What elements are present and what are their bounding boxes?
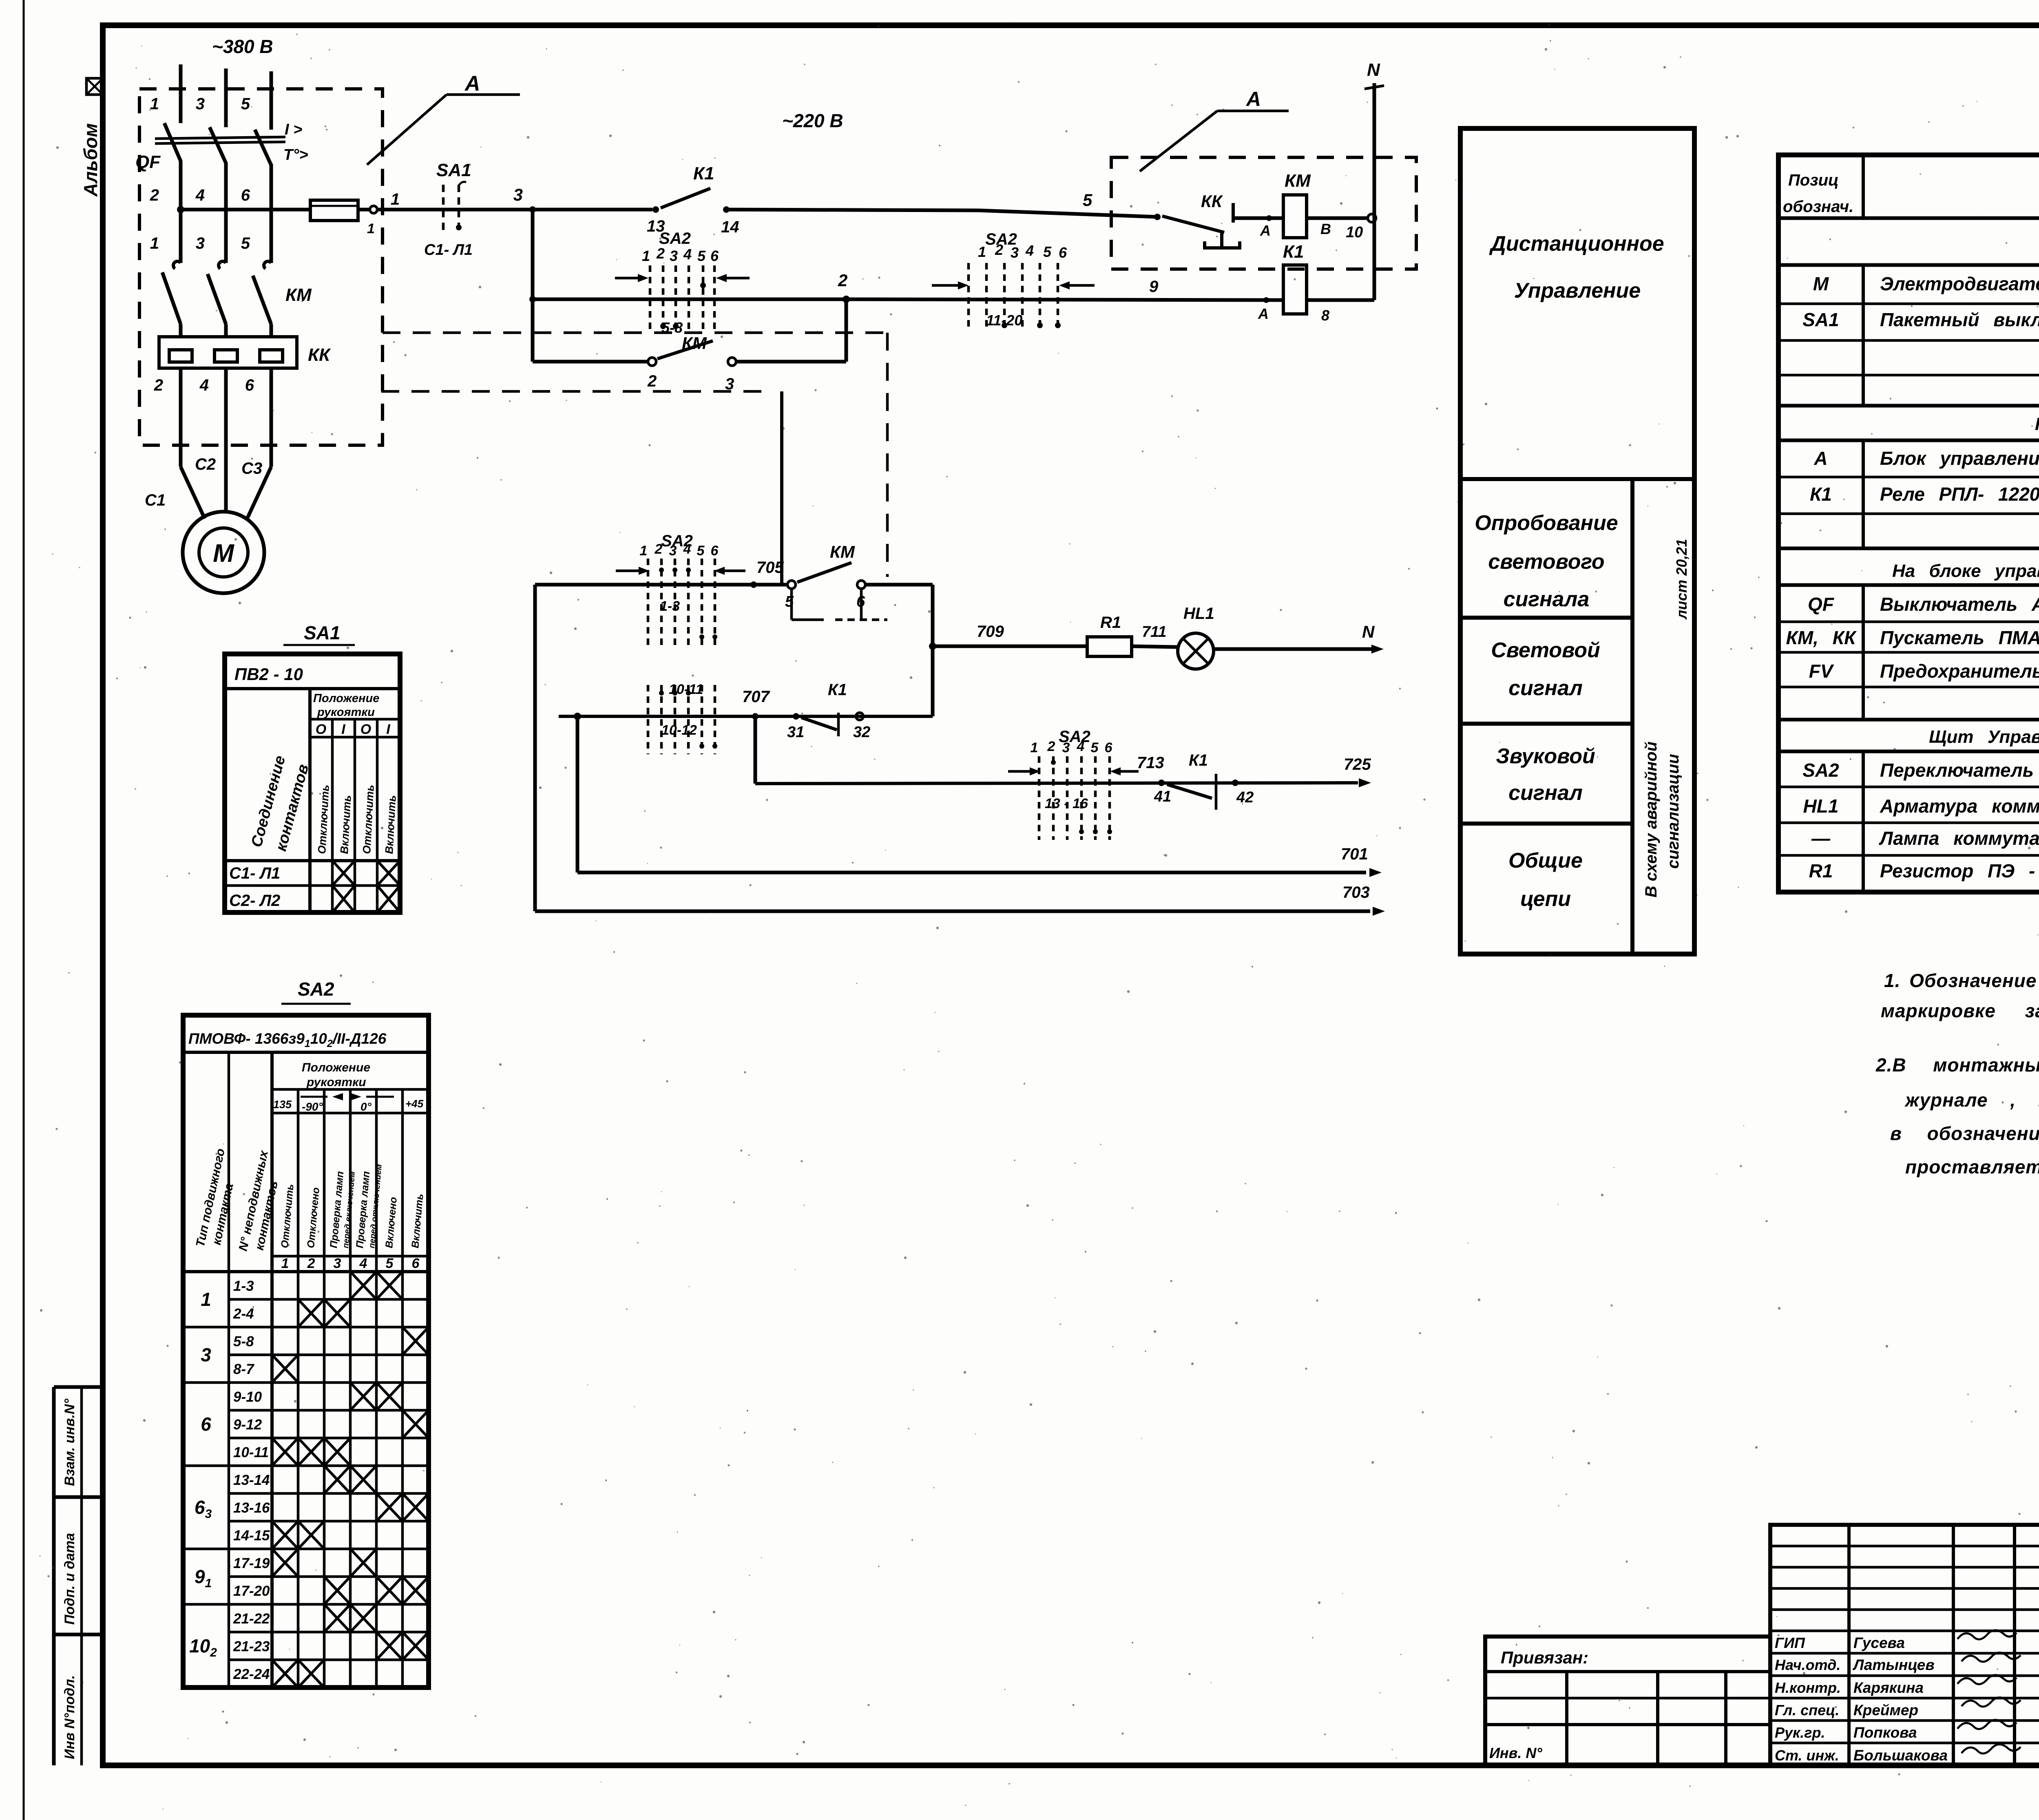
svg-text:КК: КК [308,345,331,365]
svg-text:QF: QF [135,152,161,172]
svg-text:6: 6 [245,376,254,394]
svg-text:6: 6 [710,247,719,264]
svg-text:—: — [1811,828,1831,849]
svg-text:КМ: КМ [682,334,707,353]
svg-text:+45: +45 [405,1098,424,1110]
svg-text:Ст. инж.: Ст. инж. [1775,1747,1839,1764]
svg-text:Попкова: Попкова [1853,1724,1917,1741]
svg-text:Лампа коммутаторная КМ60-: Лампа коммутаторная КМ60-55 [1879,828,2039,849]
svg-text:4: 4 [683,541,691,557]
svg-text:1. Обозначение „0” соответст: 1. Обозначение „0” соответствует заводск… [1884,970,2039,991]
svg-text:Выключатель АЕ2046-10У3: Выключатель АЕ2046-10У3 [1880,594,2039,615]
svg-text:4: 4 [195,186,205,204]
svg-text:Предохранитель ППТ-10У: Предохранитель ППТ-10У3 [1880,660,2039,682]
svg-text:А: А [464,72,480,95]
svg-text:Переключатель ПМОВФ-1366з: Переключатель ПМОВФ-1366з9,10г/II-Д126 [1880,760,2039,781]
svg-text:R1: R1 [1100,614,1121,632]
svg-text:0°: 0° [360,1100,372,1113]
svg-text:Пускатель ПМА4200 - УХЛ: Пускатель ПМА4200 - УХЛ4Б [1880,627,2039,648]
svg-text:5-8: 5-8 [233,1334,254,1350]
svg-text:I >: I > [285,121,302,138]
svg-text:6: 6 [856,593,865,610]
svg-text:С1- Л1: С1- Л1 [229,864,280,882]
svg-text:2.В монтажных схемах щи: 2.В монтажных схемах щитов в кабельном [1875,1054,2039,1076]
svg-text:Привязан:: Привязан: [1501,1648,1588,1667]
svg-text:HL1: HL1 [1183,605,1214,623]
svg-text:8-7: 8-7 [233,1361,254,1377]
svg-text:9: 9 [1149,278,1159,296]
svg-text:Взам. инв.N°: Взам. инв.N° [62,1398,77,1486]
svg-text:13: 13 [647,217,665,235]
svg-text:Положение: Положение [313,692,379,705]
svg-text:3: 3 [334,1256,341,1271]
svg-text:Реле РПЛ- 12204: Реле РПЛ- 12204 [1880,484,2039,505]
svg-text:2: 2 [656,245,665,262]
svg-text:2-4: 2-4 [233,1306,254,1322]
svg-text:5: 5 [386,1256,394,1271]
svg-text:Гл. спец.: Гл. спец. [1775,1702,1839,1718]
svg-text:Дистанционное: Дистанционное [1489,232,1664,256]
svg-text:3: 3 [670,247,678,264]
svg-text:22-24: 22-24 [233,1666,270,1682]
svg-text:светового: светового [1488,550,1604,574]
svg-text:709: 709 [977,623,1004,641]
svg-text:Инв N°подл.: Инв N°подл. [62,1675,77,1759]
svg-text:5: 5 [241,234,250,252]
svg-text:707: 707 [742,688,770,706]
svg-text:ПМОВФ- 1366з91102/II-Д126: ПМОВФ- 1366з91102/II-Д126 [188,1030,387,1049]
svg-text:1: 1 [642,247,650,264]
svg-text:R1: R1 [1809,860,1833,881]
svg-text:13-14: 13-14 [233,1472,270,1488]
svg-text:Блок управления БОУ5130- 3: Блок управления БОУ5130- 3674УХЛ4Б [1880,448,2039,469]
svg-text:703: 703 [1342,883,1370,901]
svg-text:17-20: 17-20 [233,1583,270,1599]
svg-text:21-22: 21-22 [233,1611,270,1627]
svg-text:маркировке зажимов.: маркировке зажимов. [1881,1000,2039,1021]
svg-text:Пакетный выключатель ПВ2- 1: Пакетный выключатель ПВ2- 10/У356 [1880,309,2039,330]
svg-text:SA1: SA1 [1802,309,1839,330]
svg-text:SA1: SA1 [304,622,340,643]
svg-text:10-11: 10-11 [669,682,703,697]
svg-text:Инв. N°: Инв. N° [1489,1745,1542,1761]
svg-text:сигнал: сигнал [1508,781,1583,805]
svg-text:705: 705 [756,559,784,576]
svg-text:К1: К1 [1283,242,1304,262]
svg-text:FV: FV [1809,660,1834,682]
svg-text:О: О [360,722,371,737]
svg-text:С1: С1 [145,491,166,509]
svg-text:HL1: HL1 [1803,795,1839,817]
svg-text:Подп. и дата: Подп. и дата [62,1533,77,1625]
svg-text:С2: С2 [195,455,216,473]
svg-text:НКУ - щит 5Щ: НКУ - щит 5Щ [2035,414,2039,434]
svg-text:N: N [1367,60,1380,80]
svg-text:SA1: SA1 [436,160,471,180]
svg-text:4: 4 [1025,242,1034,259]
svg-text:Большакова: Большакова [1853,1747,1948,1764]
svg-text:М: М [1813,273,1829,294]
svg-text:Резистор ПЭ - 25: Резистор ПЭ - 25 [1880,860,2039,881]
svg-text:-90°: -90° [302,1100,323,1113]
svg-text:3: 3 [513,185,523,204]
svg-text:9-12: 9-12 [233,1417,262,1433]
svg-text:Щит Управления: Щит Управления [1929,727,2039,747]
svg-text:2: 2 [307,1256,315,1271]
svg-text:1-3: 1-3 [660,599,680,614]
svg-text:32: 32 [853,724,870,741]
svg-text:I: I [341,722,346,737]
svg-text:1: 1 [978,243,986,260]
svg-text:5: 5 [785,593,794,610]
svg-text:КМ: КМ [830,542,855,561]
svg-text:2: 2 [655,541,663,557]
svg-text:О: О [316,722,326,737]
svg-text:К1: К1 [1189,751,1208,769]
svg-text:сигнал: сигнал [1508,676,1583,700]
svg-text:21-23: 21-23 [233,1639,270,1654]
svg-text:КМ: КМ [285,285,312,305]
svg-text:3: 3 [201,1344,211,1365]
svg-text:цепи: цепи [1520,887,1571,911]
svg-text:SA2: SA2 [298,978,334,1000]
svg-text:14: 14 [721,218,739,236]
svg-text:Карякина: Карякина [1853,1679,1924,1696]
svg-text:SA2: SA2 [985,230,1017,248]
svg-text:4: 4 [683,246,692,263]
svg-text:рукоятки: рукоятки [317,706,375,719]
svg-text:41: 41 [1154,788,1171,805]
svg-text:5: 5 [1091,740,1099,755]
svg-text:14-15: 14-15 [233,1528,270,1544]
svg-text:КМ, КК: КМ, КК [1786,627,1857,648]
svg-text:1: 1 [201,1289,211,1310]
svg-text:1-3: 1-3 [233,1278,254,1294]
svg-text:Арматура коммутаторной лампы: Арматура коммутаторной лампы АСКМ-3 [1880,795,2039,817]
svg-text:Положение: Положение [302,1061,370,1074]
svg-text:6: 6 [201,1414,211,1435]
svg-text:135: 135 [273,1098,292,1111]
svg-text:В схему аварийной: В схему аварийной [1642,742,1660,898]
svg-text:42: 42 [1236,789,1254,806]
svg-text:2: 2 [647,372,657,390]
svg-text:~380 В: ~380 В [212,36,273,57]
svg-text:3: 3 [196,95,205,113]
svg-text:QF: QF [1808,594,1835,615]
svg-text:Световой: Световой [1491,638,1600,662]
svg-text:КК: КК [1201,192,1223,211]
svg-text:Рук.гр.: Рук.гр. [1775,1724,1825,1741]
svg-text:N: N [1362,622,1375,641]
svg-text:5: 5 [241,95,250,113]
svg-text:1: 1 [1031,740,1038,755]
svg-text:6: 6 [1059,244,1067,261]
svg-text:10-11: 10-11 [233,1445,269,1460]
svg-text:Управление: Управление [1514,279,1641,303]
svg-text:I: I [386,722,391,737]
svg-text:Латынцев: Латынцев [1852,1657,1935,1673]
svg-text:1: 1 [150,95,159,113]
svg-text:Альбом: Альбом [80,123,101,197]
svg-text:Креймер: Креймер [1853,1702,1918,1718]
svg-text:10-12: 10-12 [661,722,697,738]
svg-text:2: 2 [838,271,847,290]
svg-text:6: 6 [711,543,719,559]
svg-text:Опробование: Опробование [1475,511,1618,535]
svg-text:1: 1 [150,234,159,252]
svg-text:1: 1 [281,1256,289,1271]
svg-text:4: 4 [199,376,209,394]
svg-text:4: 4 [359,1256,367,1271]
svg-text:Общие: Общие [1508,849,1583,872]
svg-text:725: 725 [1344,755,1371,773]
svg-text:5: 5 [697,247,706,264]
svg-text:5: 5 [1083,190,1092,210]
svg-text:в обозначении блоков упра: в обозначении блоков управления впереди [1890,1123,2039,1144]
svg-text:2: 2 [154,376,163,394]
svg-text:На блоке управления: На блоке управления [1892,561,2039,581]
svg-text:713: 713 [1137,754,1164,772]
svg-text:Т°>: Т°> [283,146,308,163]
svg-text:9-10: 9-10 [233,1389,262,1405]
svg-text:К1: К1 [1810,484,1832,505]
svg-text:SA2: SA2 [1802,760,1839,781]
svg-text:Нач.отд.: Нач.отд. [1775,1657,1840,1673]
svg-text:13 - 16: 13 - 16 [1045,796,1088,811]
svg-text:обознач.: обознач. [1783,198,1853,216]
svg-text:13-16: 13-16 [233,1500,270,1516]
svg-text:701: 701 [1341,845,1368,863]
svg-text:2: 2 [150,186,159,204]
svg-text:10: 10 [1346,224,1363,241]
svg-text:А: А [1245,88,1261,110]
svg-text:А: А [1813,448,1827,469]
svg-text:1: 1 [640,543,648,559]
svg-text:сигнализации: сигнализации [1664,754,1682,869]
svg-text:Звуковой: Звуковой [1496,744,1595,768]
svg-text:3: 3 [196,234,205,252]
svg-text:2: 2 [1047,739,1055,754]
svg-text:рукоятки: рукоятки [306,1076,366,1089]
svg-text:А: А [1260,222,1271,239]
svg-text:1: 1 [367,221,375,236]
svg-text:С1- Л1: С1- Л1 [424,241,473,258]
svg-text:сигнала: сигнала [1504,588,1590,611]
svg-text:~220 В: ~220 В [782,110,843,131]
svg-text:М: М [213,539,234,568]
svg-text:6: 6 [241,186,250,204]
svg-text:3: 3 [1062,740,1070,755]
svg-text:5: 5 [697,543,705,559]
svg-text:журнале , в маркировке апп: журнале , в маркировке аппаратов и кабел… [1904,1089,2039,1111]
svg-text:Гусева: Гусева [1853,1634,1905,1651]
svg-text:31: 31 [787,724,804,741]
svg-text:711: 711 [1142,623,1167,641]
svg-text:17-19: 17-19 [233,1555,270,1571]
svg-text:Н.контр.: Н.контр. [1775,1679,1841,1696]
svg-text:Электродвигатель 4А18052: Электродвигатель 4А18052 [1880,273,2039,294]
svg-text:К1: К1 [693,163,714,183]
svg-text:4: 4 [1077,739,1085,754]
svg-text:3: 3 [669,543,677,559]
svg-text:проставляется номер элек: проставляется номер электропривода по пл… [1905,1156,2039,1177]
svg-text:8: 8 [1321,307,1329,324]
svg-text:6: 6 [412,1256,420,1271]
svg-text:1: 1 [391,190,400,208]
svg-text:С3: С3 [241,459,262,477]
svg-text:В: В [1320,221,1331,237]
svg-text:11-20: 11-20 [986,312,1022,329]
svg-text:С2- Л2: С2- Л2 [229,892,280,910]
svg-text:Позиц: Позиц [1788,171,1839,189]
svg-text:лист 20,21: лист 20,21 [1673,539,1690,620]
svg-text:6: 6 [1105,740,1113,755]
svg-text:А: А [1258,305,1269,322]
svg-text:ПВ2 - 10: ПВ2 - 10 [234,665,303,684]
svg-text:КМ: КМ [1285,171,1311,191]
svg-text:5: 5 [1043,243,1052,260]
svg-text:ГИП: ГИП [1775,1634,1805,1651]
